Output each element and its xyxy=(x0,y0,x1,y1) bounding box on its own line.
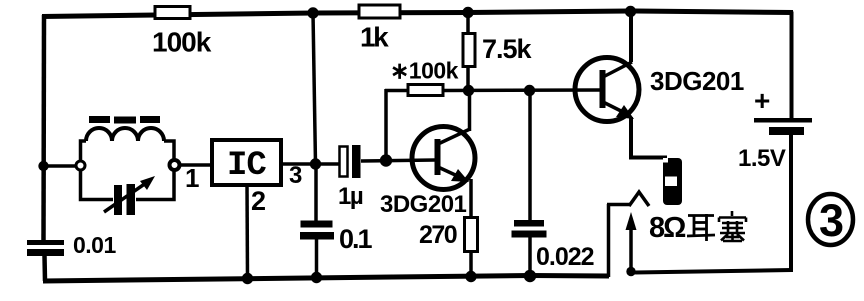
wire jack ground vertical xyxy=(607,204,611,277)
wire 270 to bottom rail xyxy=(469,252,473,277)
wire feedback vertical xyxy=(384,89,388,161)
wire bias horizontal to Q2 base xyxy=(443,88,601,92)
wire top rail xyxy=(42,11,793,17)
svg-text:0.01: 0.01 xyxy=(73,232,116,258)
earphone plug xyxy=(663,158,682,205)
wire 0.022 to bottom rail xyxy=(528,236,532,277)
resistor 1k (top middle) xyxy=(359,5,400,53)
node junction left rail tank xyxy=(38,161,48,171)
svg-text:270: 270 xyxy=(419,221,457,249)
wire 1u cap to Q1 base xyxy=(361,160,435,161)
transistor Q2 3DG201 xyxy=(575,58,744,122)
node junction top of 7.5k xyxy=(462,7,473,18)
wire mid vertical to 0.1 cap xyxy=(314,164,318,221)
wire left rail lower xyxy=(42,256,47,281)
wire IC pin 3 xyxy=(280,162,340,166)
node junction top-left of 1k xyxy=(307,7,318,18)
node junction 0.022 at rail xyxy=(524,270,536,282)
wire battery positive vertical xyxy=(790,12,794,120)
figure number circled 3 xyxy=(808,194,853,246)
label plug (Chinese char) xyxy=(719,211,746,241)
wire Q1 emitter vertical xyxy=(469,179,473,218)
svg-text:0.022: 0.022 xyxy=(536,243,594,271)
jack contact chevron xyxy=(629,192,649,206)
svg-text:3: 3 xyxy=(289,162,302,189)
resistor *100k (feedback) xyxy=(390,58,459,96)
label ear (Chinese char) xyxy=(687,214,715,241)
node terminal left (open circle) xyxy=(76,161,85,170)
node junction 7.5k bottom xyxy=(463,85,474,96)
variable capacitor xyxy=(104,176,155,215)
svg-text:2: 2 xyxy=(251,186,266,216)
svg-text:100k: 100k xyxy=(152,27,212,58)
resistor 7.5k (vertical) xyxy=(463,34,533,67)
svg-text:1.5V: 1.5V xyxy=(738,145,786,172)
wire bottom rail right segment xyxy=(631,270,792,273)
wire 7.5k bottom lead xyxy=(466,66,470,91)
svg-text:3DG201: 3DG201 xyxy=(650,66,744,96)
node junction Q2 collector at rail xyxy=(625,6,636,17)
wire battery negative vertical xyxy=(789,132,793,272)
node terminal right (open circle) xyxy=(170,160,180,170)
node junction pin2 at rail xyxy=(242,273,253,284)
wire bottom rail xyxy=(43,276,609,282)
svg-text:IC: IC xyxy=(227,147,266,185)
wire jack ground horizontal xyxy=(607,203,630,207)
capacitor 0.1 xyxy=(300,221,373,255)
capacitor 0.01 xyxy=(27,232,116,258)
tank circuit frame xyxy=(81,141,175,200)
svg-text:7.5k: 7.5k xyxy=(482,34,533,64)
wire IC pin 2 xyxy=(245,185,249,278)
resistor 100k (top left) xyxy=(152,7,212,58)
wire IC pin 1 xyxy=(180,163,214,167)
wire mid vertical upper xyxy=(313,13,316,164)
jack contact arrow xyxy=(626,212,637,271)
inductor antenna coil xyxy=(86,128,164,141)
wire tank feed xyxy=(42,164,77,168)
svg-text:0.1: 0.1 xyxy=(339,224,373,254)
capacitor 0.022 xyxy=(512,220,594,271)
svg-text:3: 3 xyxy=(819,195,844,246)
wire Q2 collector vertical xyxy=(629,13,633,62)
node junction IC pin3 xyxy=(310,158,321,169)
svg-text:8Ω: 8Ω xyxy=(649,212,686,244)
battery 1.5V xyxy=(738,85,812,172)
wire Q2 emitter vertical xyxy=(629,117,633,157)
IC U1 xyxy=(212,140,281,185)
node junction Q1 base xyxy=(380,154,392,166)
svg-text:+: + xyxy=(754,85,770,116)
transistor Q1 3DG201 xyxy=(380,127,475,219)
wire Q1 collector vertical xyxy=(468,91,472,131)
node junction 270 at rail xyxy=(465,271,476,282)
svg-text:3DG201: 3DG201 xyxy=(380,191,467,218)
svg-text:1µ: 1µ xyxy=(338,183,363,210)
svg-text:∗100k: ∗100k xyxy=(390,58,459,84)
node junction 0.1 at rail xyxy=(311,272,322,283)
wire left rail upper xyxy=(41,15,46,240)
wire 0.022 vertical upper xyxy=(528,91,532,221)
svg-text:1k: 1k xyxy=(360,22,389,53)
wire 7.5k top lead xyxy=(466,13,470,34)
node junction 0.022 top xyxy=(524,85,535,96)
wire 0.1 cap to bottom rail xyxy=(315,239,319,278)
capacitor 1u (coupling) xyxy=(338,145,363,210)
ferrite rod xyxy=(89,116,160,124)
node junction arrow at rail xyxy=(626,267,635,276)
wire emitter to plug xyxy=(629,156,667,160)
svg-text:1: 1 xyxy=(185,163,199,193)
resistor 270 (vertical, Q1 emitter) xyxy=(419,218,478,252)
wire feedback resistor left lead xyxy=(385,89,408,93)
